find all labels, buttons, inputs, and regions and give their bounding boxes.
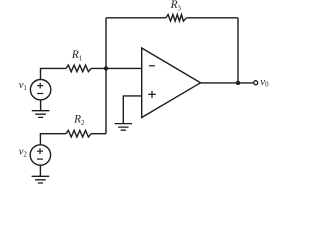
source v2 xyxy=(30,145,50,165)
op-amp U1 xyxy=(142,48,201,118)
svg-text:R1: R1 xyxy=(71,49,82,62)
node junction dot at inverting input xyxy=(104,66,108,70)
ground at non-inverting input xyxy=(115,124,133,131)
wire top feedback right segment xyxy=(187,17,239,19)
svg-text:v2: v2 xyxy=(19,147,28,159)
wire left vertical from feedback top down to R2 xyxy=(105,18,107,134)
op-amp inverting input marker xyxy=(149,65,155,67)
resistor R3 xyxy=(166,15,187,22)
ground below v1 xyxy=(32,111,50,118)
source v1 xyxy=(30,80,50,100)
svg-text:R3: R3 xyxy=(170,0,182,12)
output terminal open circle xyxy=(254,81,258,85)
wire output xyxy=(201,82,254,84)
resistor R2 xyxy=(66,130,91,137)
svg-text:v1: v1 xyxy=(19,80,28,92)
wire v2 to ground xyxy=(39,165,41,176)
svg-text:v0: v0 xyxy=(260,76,269,89)
wire R2 left lead from v2 xyxy=(40,134,66,145)
wire R1 left lead from v1 xyxy=(41,68,67,79)
op-amp non-inverting input marker xyxy=(148,91,155,98)
ground below v2 xyxy=(32,176,50,183)
wire top feedback left segment xyxy=(106,17,166,19)
wire right vertical from feedback to output node xyxy=(237,18,239,83)
svg-text:R2: R2 xyxy=(73,113,85,126)
wire R1 right lead to inverting input xyxy=(91,67,142,69)
wire v1 to ground xyxy=(40,100,42,111)
resistor R1 xyxy=(66,65,91,72)
node junction dot at output xyxy=(236,81,240,85)
wire R2 right lead to left vertical xyxy=(91,133,106,135)
wire non-inverting input to ground xyxy=(123,96,141,124)
